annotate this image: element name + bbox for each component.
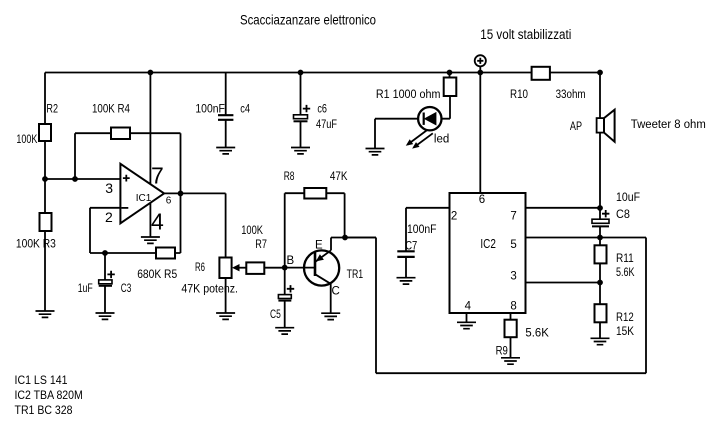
- node rail-tweeter: [597, 70, 603, 76]
- resistor R2: [39, 124, 51, 141]
- svg-text:4: 4: [465, 301, 472, 313]
- ground left rail: [36, 311, 55, 317]
- node C3 top: [102, 250, 108, 256]
- svg-text:Scacciazanzare elettronico: Scacciazanzare elettronico: [240, 12, 376, 28]
- IC2 TBA820M: [450, 193, 526, 313]
- svg-text:AP: AP: [570, 121, 582, 133]
- svg-text:5.6K: 5.6K: [616, 267, 635, 279]
- wire C5 stem: [284, 268, 286, 328]
- node R11-R12: [597, 280, 603, 286]
- ground C5: [275, 328, 294, 334]
- resistor R10: [532, 67, 550, 80]
- wire pin4 to ground: [149, 203, 151, 237]
- wire R7 to base node: [264, 267, 284, 269]
- svg-text:7: 7: [151, 163, 164, 189]
- ground C3: [96, 313, 115, 319]
- svg-text:R1 1000 ohm: R1 1000 ohm: [376, 89, 441, 101]
- svg-text:6: 6: [166, 195, 172, 206]
- ground TR1 collector: [321, 313, 340, 319]
- svg-text:3: 3: [105, 180, 113, 196]
- node op-amp output: [178, 191, 184, 197]
- node C8 bottom: [597, 235, 603, 241]
- ground R6: [216, 313, 235, 319]
- wire c4 stem: [225, 73, 227, 148]
- wire R12 stems: [599, 283, 601, 339]
- ground c6: [291, 148, 310, 154]
- svg-text:100K: 100K: [16, 134, 37, 146]
- svg-text:E: E: [315, 240, 323, 252]
- svg-text:2: 2: [105, 209, 113, 225]
- svg-text:5: 5: [510, 239, 516, 251]
- wire IC2 pin4 to ground: [466, 313, 468, 322]
- wire R6 bottom to ground: [225, 278, 227, 313]
- resistor R7: [246, 262, 264, 274]
- transistor TR1: [304, 250, 339, 285]
- wire op-amp output: [164, 193, 226, 257]
- ground IC2 pin4: [457, 322, 476, 328]
- wire C3 stem: [104, 253, 106, 313]
- svg-text:TR1: TR1: [347, 269, 364, 281]
- LED D1: [418, 107, 441, 130]
- wire tweeter branch down to C8: [599, 73, 601, 238]
- wire IC2 pin7: [526, 207, 601, 209]
- tweeter AP: [597, 118, 604, 133]
- svg-text:6: 6: [479, 194, 485, 206]
- resistor R11: [595, 245, 607, 263]
- wire top supply rail: [45, 72, 600, 74]
- capacitor C5: [278, 295, 291, 299]
- resistor R12: [595, 304, 607, 322]
- wire TR1 emitter to junction: [315, 238, 376, 263]
- svg-text:47uF: 47uF: [316, 119, 337, 131]
- wire R4 feedback branch: [75, 133, 181, 253]
- resistor R9: [505, 320, 517, 338]
- ground R9: [501, 358, 520, 364]
- svg-text:c6: c6: [317, 103, 327, 115]
- svg-text:47K: 47K: [330, 171, 348, 183]
- wire TR1 collector to ground: [315, 274, 331, 313]
- svg-text:R2: R2: [46, 103, 58, 115]
- svg-text:100K R3: 100K R3: [16, 239, 56, 251]
- wire R1 branch: [442, 73, 450, 119]
- svg-text:TR1 BC 328: TR1 BC 328: [15, 405, 73, 417]
- svg-text:680K R5: 680K R5: [137, 269, 177, 281]
- node R4 input: [72, 176, 78, 182]
- ground LED: [366, 149, 385, 155]
- LED light arrow 2: [414, 133, 433, 147]
- capacitor C8: [592, 219, 609, 223]
- svg-text:7: 7: [510, 211, 516, 223]
- node left rail input: [42, 176, 48, 182]
- svg-text:R9: R9: [496, 346, 508, 358]
- wire IC2 pin3: [526, 282, 601, 284]
- svg-text:10uF: 10uF: [616, 192, 640, 204]
- svg-text:15K: 15K: [616, 326, 634, 338]
- svg-text:4: 4: [151, 209, 164, 235]
- capacitor C3: [99, 280, 112, 284]
- wire inverting input branch: [90, 208, 181, 253]
- svg-text:R7: R7: [255, 239, 267, 251]
- resistor R1: [444, 78, 457, 97]
- svg-text:C8: C8: [616, 209, 630, 221]
- svg-text:B: B: [287, 255, 295, 267]
- node rail-supply: [477, 70, 483, 76]
- potentiometer R6: [219, 258, 231, 279]
- svg-text:C7: C7: [405, 241, 417, 253]
- wire R8 branch: [285, 193, 345, 267]
- svg-text:R6: R6: [195, 262, 205, 274]
- svg-text:100nF: 100nF: [195, 103, 225, 115]
- svg-text:R11: R11: [616, 253, 634, 265]
- node rail-R1: [447, 70, 453, 76]
- svg-text:47K potenz.: 47K potenz.: [181, 284, 238, 296]
- plus supply terminal: [475, 55, 486, 66]
- node emitter junction: [342, 235, 348, 241]
- wire plus terminal and IC2 pin6: [479, 67, 481, 194]
- LED light arrow 1: [408, 131, 427, 145]
- node rail-c6: [298, 70, 304, 76]
- wire noninverting input node: [45, 178, 120, 180]
- svg-text:C: C: [332, 286, 340, 298]
- wire IC2 pin5 feedback loop: [345, 238, 646, 374]
- svg-text:C3: C3: [121, 283, 132, 295]
- resistor R5: [156, 248, 175, 259]
- wire LED anode to ground: [375, 119, 418, 149]
- resistor R8: [304, 188, 326, 199]
- wire TR1 base: [285, 267, 315, 269]
- svg-text:IC2 TBA 820M: IC2 TBA 820M: [15, 390, 83, 402]
- op-amp IC1: [120, 164, 164, 224]
- node C8 top: [597, 205, 603, 211]
- svg-text:IC2: IC2: [480, 236, 496, 251]
- svg-text:2: 2: [451, 211, 457, 223]
- svg-text:5.6K: 5.6K: [525, 328, 549, 340]
- svg-text:Tweeter 8 ohm: Tweeter 8 ohm: [631, 119, 706, 131]
- node rail-pin7: [148, 70, 154, 76]
- node base junction: [282, 265, 288, 271]
- wire IC2 pin2 to C7: [406, 208, 450, 278]
- svg-text:8: 8: [510, 301, 516, 313]
- svg-text:33ohm: 33ohm: [556, 89, 586, 101]
- wire R6 wiper from R7: [238, 267, 246, 269]
- ground c4: [216, 148, 235, 154]
- svg-text:1uF: 1uF: [78, 283, 93, 295]
- wire c6 stem: [300, 73, 302, 148]
- capacitor c6: [294, 115, 308, 119]
- wire IC2 pin8 to R9: [510, 313, 512, 358]
- svg-text:3: 3: [510, 271, 516, 283]
- svg-text:R12: R12: [616, 312, 634, 324]
- capacitor C7: [397, 251, 414, 257]
- svg-text:100K R4: 100K R4: [92, 103, 131, 115]
- svg-text:led: led: [434, 134, 449, 146]
- svg-text:C5: C5: [270, 309, 281, 321]
- svg-text:R10: R10: [510, 89, 528, 101]
- ground C7: [397, 278, 416, 284]
- svg-text:c4: c4: [240, 103, 250, 115]
- ground IC1 pin4: [141, 237, 160, 243]
- svg-text:IC1 LS 141: IC1 LS 141: [15, 375, 68, 387]
- wire R11 stems: [599, 238, 601, 283]
- wire pin7 to rail: [149, 73, 151, 184]
- capacitor c4: [218, 115, 233, 120]
- wire left rail: [44, 73, 46, 312]
- ground R12: [591, 338, 610, 344]
- svg-text:100nF: 100nF: [407, 224, 437, 236]
- svg-text:IC1: IC1: [136, 193, 152, 204]
- svg-text:R8: R8: [284, 171, 295, 183]
- svg-text:15 volt stabilizzati: 15 volt stabilizzati: [480, 27, 571, 42]
- resistor R4: [111, 128, 130, 140]
- resistor R3: [40, 213, 52, 231]
- svg-text:100K: 100K: [241, 225, 263, 237]
